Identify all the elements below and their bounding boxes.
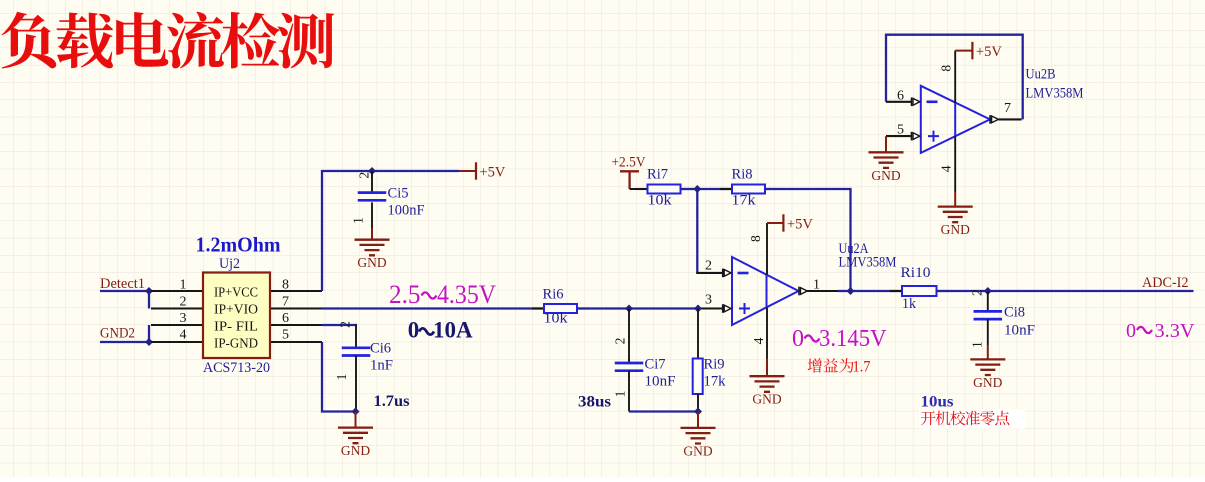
svg-text:38us: 38us <box>578 394 611 411</box>
resistor Ri7 <box>636 185 693 194</box>
svg-text:IP- FIL: IP- FIL <box>214 319 258 334</box>
power +5V of Uu2A <box>783 214 813 232</box>
wire junction down to pin2 row <box>148 291 150 309</box>
svg-text:+5V: +5V <box>787 217 813 233</box>
svg-text:100nF: 100nF <box>388 203 425 219</box>
ground lead Ci8 <box>987 345 989 359</box>
annotation 增益为1.7 <box>808 358 871 375</box>
pin 8 wire of Uu2B <box>954 51 956 103</box>
pin 3 of Uj2 <box>151 324 203 326</box>
svg-text:Detect1: Detect1 <box>100 276 145 292</box>
wire +2.5V to Ri7 <box>630 188 648 190</box>
wire Ci7 node to Ri9 node <box>629 307 698 309</box>
wire node to Ri10 <box>851 290 903 292</box>
annotation 0~3.3V <box>1126 320 1195 342</box>
wire pin7 to Ri6 <box>322 307 544 309</box>
svg-text:1: 1 <box>180 278 187 293</box>
svg-text:Ri6: Ri6 <box>543 287 564 303</box>
pin 4 of Uj2 <box>151 341 203 343</box>
wire Ri9 node to op-amp pin3 <box>698 307 723 309</box>
svg-text:+5V: +5V <box>480 165 506 181</box>
pin 4 wire of Uu2B <box>954 136 956 192</box>
svg-text:1: 1 <box>351 217 366 224</box>
power lead +5V of Uu2A <box>767 222 783 224</box>
wire Ci7 to Ri9 bottom <box>629 410 698 412</box>
ground Uu2B pin4 <box>938 207 973 238</box>
svg-text:7: 7 <box>282 295 289 310</box>
op-amp Uu2A <box>732 257 799 325</box>
sheet title text 负载电流检测 <box>2 12 335 69</box>
junction Ri9 gnd node <box>694 408 702 416</box>
svg-text:Ri7: Ri7 <box>647 167 668 183</box>
pin 6 stub of Uu2B <box>886 101 912 103</box>
pin 3 arrow of Uu2A <box>723 304 731 313</box>
wire Ri10 to Ci8 node <box>937 290 988 292</box>
current sensor IC Uj2 body <box>203 273 270 359</box>
svg-text:Ri9: Ri9 <box>704 357 725 373</box>
svg-text:2: 2 <box>613 338 628 345</box>
wire pin5 of Uu2B <box>886 135 912 137</box>
capacitor Ci5 <box>358 193 387 201</box>
resistor Ri6 <box>532 304 589 313</box>
svg-text:1.7us: 1.7us <box>374 393 410 410</box>
annotation tilde of 0~3.3V <box>1137 327 1152 333</box>
pin 5 of Uj2 <box>270 341 322 343</box>
ground lead Ci5 <box>371 228 373 240</box>
svg-text:IP+VCC: IP+VCC <box>214 285 258 300</box>
pin 6 of Uj2 <box>270 324 322 326</box>
capacitor Ci8 top lead <box>987 291 989 311</box>
svg-text:IP+VIO: IP+VIO <box>214 302 258 317</box>
wire Ci8 node to ADC-I2 <box>988 290 1194 292</box>
svg-text:GND: GND <box>357 255 386 270</box>
svg-text:GND: GND <box>871 168 900 183</box>
junction Ri7 Ri8 node <box>693 185 701 193</box>
power +5V of Uu2B <box>972 42 1002 60</box>
power lead +5V <box>459 170 477 172</box>
junction Ci5 node <box>368 167 376 175</box>
svg-text:0: 0 <box>408 318 420 343</box>
svg-text:10nF: 10nF <box>1004 323 1035 339</box>
wire Ri7 to Ri8 <box>681 188 733 190</box>
svg-text:10A: 10A <box>433 318 473 343</box>
capacitor Ci8 bottom lead <box>987 319 989 345</box>
pin 4 wire of Uu2A <box>766 308 768 359</box>
svg-text:LMV358M: LMV358M <box>839 255 897 271</box>
svg-text:3.145V: 3.145V <box>819 326 887 352</box>
ground Ci6 <box>338 428 373 459</box>
wire Ri8 to output node <box>765 189 851 291</box>
svg-text:GND: GND <box>341 443 370 458</box>
svg-text:1: 1 <box>613 391 628 398</box>
resistor Ri9 bottom lead <box>697 394 699 412</box>
svg-text:GND: GND <box>941 222 970 237</box>
svg-text:4: 4 <box>180 328 187 343</box>
annotation 2.5~4.35V <box>389 279 496 309</box>
ground Ci8 <box>970 359 1005 390</box>
svg-text:Ci6: Ci6 <box>370 341 391 357</box>
svg-text:17k: 17k <box>732 193 757 209</box>
svg-text:+2.5V: +2.5V <box>612 155 646 171</box>
annotation 0~3.145V <box>792 326 887 352</box>
power +5V rail <box>476 162 506 180</box>
svg-text:Uu2B: Uu2B <box>1026 67 1056 83</box>
power lead +5V of Uu2B <box>955 50 972 52</box>
wire feedback loop Uu2B <box>886 35 1023 120</box>
svg-text:1: 1 <box>334 374 349 381</box>
svg-text:1k: 1k <box>902 296 917 312</box>
wire pin6 to Ci6 <box>322 324 356 326</box>
svg-text:0: 0 <box>792 326 804 352</box>
annotation 0~10A <box>408 318 473 343</box>
capacitor Ci6 bottom lead <box>355 356 357 412</box>
svg-text:8: 8 <box>939 65 954 72</box>
svg-text:1: 1 <box>970 341 985 348</box>
svg-text:IP-GND: IP-GND <box>214 336 258 351</box>
wire Detect1 to junction <box>100 290 149 292</box>
svg-text:6: 6 <box>282 311 289 326</box>
capacitor Ci5 top lead <box>371 171 373 193</box>
junction Ci6 gnd node <box>352 408 360 416</box>
svg-text:Ci8: Ci8 <box>1004 305 1025 321</box>
power +2.5V bar <box>620 171 639 189</box>
svg-text:2: 2 <box>180 295 187 310</box>
annotation tilde of 2.5~4.35V <box>422 292 437 298</box>
svg-text:0: 0 <box>1126 320 1136 342</box>
wire GND2 to junction <box>100 341 149 343</box>
svg-text:ACS713-20: ACS713-20 <box>203 360 270 376</box>
junction output node <box>847 287 855 295</box>
pin 6 arrow of Uu2B <box>912 98 920 107</box>
junction Detect1 node <box>145 287 153 295</box>
svg-text:4.35V: 4.35V <box>437 279 496 309</box>
wire pin8 up to +5V row <box>322 171 372 291</box>
capacitor Ci5 bottom lead <box>371 202 373 228</box>
svg-text:Uj2: Uj2 <box>219 256 240 272</box>
pin 1 stub of Uu2A <box>807 290 838 292</box>
annotation tilde of 0~3.145V <box>805 335 820 341</box>
pin 8 wire of Uu2A <box>766 223 768 275</box>
svg-text:17k: 17k <box>704 374 727 390</box>
svg-text:Ci5: Ci5 <box>388 186 409 202</box>
svg-text:4: 4 <box>751 337 766 344</box>
svg-text:10k: 10k <box>648 193 673 209</box>
svg-text:1nF: 1nF <box>370 358 393 374</box>
pin 7 of Uj2 <box>270 308 322 310</box>
svg-text:5: 5 <box>897 123 904 138</box>
svg-text:8: 8 <box>282 278 289 293</box>
ground lead Ri9 node <box>697 412 699 428</box>
svg-text:LMV358M: LMV358M <box>1026 86 1084 102</box>
junction Ri9 node <box>694 305 702 313</box>
pin 7 arrow of Uu2B <box>990 115 998 124</box>
svg-text:3: 3 <box>705 293 712 308</box>
svg-text:+5V: +5V <box>976 44 1002 60</box>
wire to op-amp A pin2 <box>696 272 723 274</box>
pin 5 arrow of Uu2B <box>912 132 920 141</box>
svg-text:GND: GND <box>683 443 712 458</box>
svg-text:1.7: 1.7 <box>853 359 871 376</box>
pin 1 of U j2 <box>151 290 203 292</box>
svg-text:2: 2 <box>338 321 353 328</box>
capacitor Ci7 top lead <box>628 309 630 364</box>
ground Ci5 <box>355 240 390 271</box>
text highlight box <box>919 409 1025 429</box>
ground lead of Uu2A <box>766 359 768 377</box>
wire junction up to pin3 row <box>148 325 150 342</box>
svg-text:GND: GND <box>752 392 781 407</box>
annotation tilde of 0~10A <box>419 328 434 334</box>
svg-text:8: 8 <box>748 235 763 242</box>
junction Ci8 node <box>984 287 992 295</box>
capacitor Ci6 top lead <box>355 324 357 348</box>
resistor Ri9 <box>693 359 703 395</box>
svg-text:7: 7 <box>1004 101 1011 116</box>
svg-text:2: 2 <box>970 289 985 296</box>
svg-text:10nF: 10nF <box>645 374 676 390</box>
capacitor Ci6 <box>342 348 371 356</box>
svg-text:ADC-I2: ADC-I2 <box>1142 275 1189 291</box>
pin 8 of Uj2 <box>270 290 322 292</box>
svg-text:10us: 10us <box>921 394 954 411</box>
svg-text:6: 6 <box>897 89 904 104</box>
wire node down to pin2 row <box>696 189 698 273</box>
svg-text:4: 4 <box>939 165 954 172</box>
svg-text:GND: GND <box>973 375 1002 390</box>
junction Ci7 node <box>625 305 633 313</box>
wire Ri6 to Ci7 node <box>577 307 629 309</box>
pin 2 arrow of Uu2A <box>723 269 731 278</box>
ground lead Ci6 node <box>355 412 357 428</box>
ground Ri9 Ci7 <box>681 428 716 459</box>
wire pin5 down to gnd node <box>322 342 355 412</box>
svg-text:Ci7: Ci7 <box>645 357 666 373</box>
svg-text:2: 2 <box>357 172 372 179</box>
junction GND2 node <box>145 338 153 346</box>
svg-text:3: 3 <box>180 311 187 326</box>
op-amp Uu2B <box>921 86 990 153</box>
pin 7 stub of Uu2B <box>998 118 1021 120</box>
svg-text:2: 2 <box>705 259 712 274</box>
resistor Ri8 <box>720 185 777 194</box>
resistor Ri10 <box>890 286 949 296</box>
svg-text:10k: 10k <box>544 311 569 327</box>
resistor Ri9 top lead <box>697 309 699 359</box>
pin 2 of Uj2 <box>151 308 203 310</box>
capacitor Ci8 <box>974 311 1003 319</box>
svg-text:Ri8: Ri8 <box>732 167 753 183</box>
svg-text:2.5: 2.5 <box>389 279 421 309</box>
capacitor Ci7 bottom lead <box>628 371 630 412</box>
ground lead pin4 Uu2B <box>954 192 956 207</box>
pin 1 arrow of Uu2A <box>799 287 807 296</box>
ground lead pin5 Uu2B <box>885 136 887 152</box>
svg-text:5: 5 <box>282 328 289 343</box>
wire Ci5 junction to +5V symbol <box>372 170 459 172</box>
svg-text:3.3V: 3.3V <box>1155 320 1196 342</box>
wire op-amp A output to node <box>838 290 851 292</box>
svg-text:1.2mOhm: 1.2mOhm <box>196 233 281 257</box>
svg-text:Ri10: Ri10 <box>901 265 931 281</box>
annotation 开机校准零点 <box>921 411 1009 426</box>
ground Uu2B pin5 <box>869 152 904 183</box>
capacitor Ci7 <box>615 363 644 371</box>
svg-text:GND2: GND2 <box>100 326 135 342</box>
ground Uu2A <box>750 376 785 407</box>
